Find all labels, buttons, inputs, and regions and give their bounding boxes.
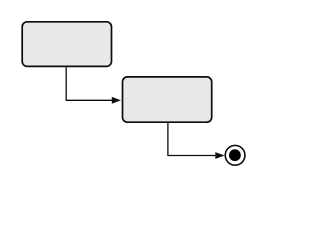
state box S2 (123, 77, 212, 122)
wire: connector from S2 to final state (168, 123, 217, 156)
state box S1 (22, 22, 111, 67)
arrowhead into S2 (112, 97, 121, 104)
final state outer ring (225, 145, 245, 165)
final state inner dot (229, 149, 241, 161)
wire: connector from S1 to S2 (66, 67, 113, 100)
arrowhead into final state (215, 152, 224, 159)
